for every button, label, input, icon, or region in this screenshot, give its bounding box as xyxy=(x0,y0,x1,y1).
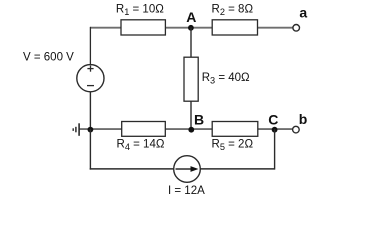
resistor R2 xyxy=(212,20,257,35)
voltage source V xyxy=(77,65,104,92)
svg-text:a: a xyxy=(299,4,307,20)
wire ground node down (left leg of source loop) xyxy=(89,129,91,170)
wire left vertical lower (V source bottom to ground node) xyxy=(89,92,91,129)
wire bottom loop left horizontal xyxy=(90,168,174,170)
resistor R1 xyxy=(121,20,165,35)
current source arrow xyxy=(176,168,195,170)
wire node A down to R3 xyxy=(190,27,192,57)
terminal b xyxy=(293,126,300,133)
svg-text:R5 = 2Ω: R5 = 2Ω xyxy=(212,138,254,152)
svg-text:R1 = 10Ω: R1 = 10Ω xyxy=(116,4,164,18)
wire bottom horizontal rail (ground stub through R4, node B, R5, node C to terminal b) xyxy=(79,128,293,130)
wire R3 down to node B xyxy=(190,101,192,129)
resistor R3 xyxy=(184,57,198,101)
svg-text:R3 = 40Ω: R3 = 40Ω xyxy=(202,72,250,86)
current source I xyxy=(174,156,201,183)
node A xyxy=(188,25,194,31)
node B xyxy=(188,127,194,133)
wire right leg up to node C xyxy=(274,129,276,170)
svg-text:R2 = 8Ω: R2 = 8Ω xyxy=(212,4,254,18)
wire top horizontal rail (V+ through R1, node A, R2 to terminal a) xyxy=(90,27,293,29)
node C xyxy=(272,127,278,133)
V source plus sign xyxy=(87,68,93,70)
svg-text:V = 600 V: V = 600 V xyxy=(23,51,74,63)
svg-text:C: C xyxy=(268,111,278,127)
resistor R4 xyxy=(122,122,166,137)
svg-text:I = 12A: I = 12A xyxy=(168,185,205,197)
terminal a xyxy=(293,25,300,32)
svg-text:B: B xyxy=(194,111,204,127)
wire left vertical upper (corner to V source top) xyxy=(89,27,91,65)
svg-text:R4 = 14Ω: R4 = 14Ω xyxy=(117,138,165,152)
wire bottom loop right horizontal xyxy=(200,168,274,170)
resistor R5 xyxy=(212,122,258,137)
V source minus sign xyxy=(87,85,94,87)
ground node junction xyxy=(88,127,94,133)
ground xyxy=(73,123,79,136)
svg-text:A: A xyxy=(186,9,196,25)
svg-text:b: b xyxy=(299,111,308,127)
